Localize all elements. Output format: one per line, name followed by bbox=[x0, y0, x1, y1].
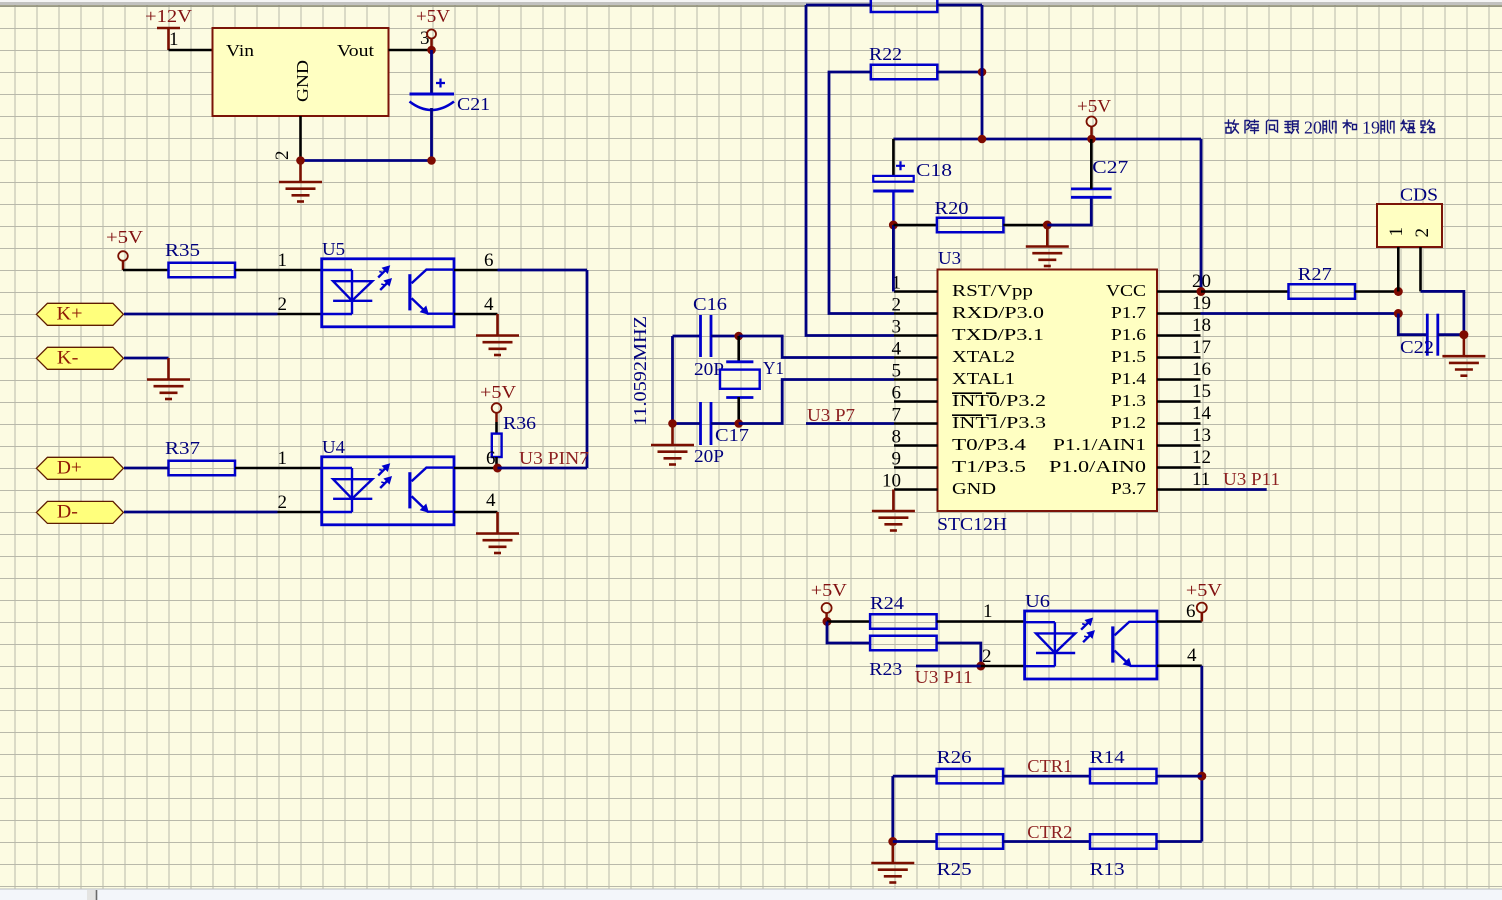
junction VCC pin20 bbox=[1197, 287, 1206, 296]
wire pin6 node to riser bbox=[498, 467, 588, 470]
junction U6 pin2 node bbox=[976, 662, 985, 671]
svg-text:XTAL1: XTAL1 bbox=[952, 369, 1015, 388]
wire D+ to R37 bbox=[124, 467, 169, 470]
pin 4 wire U6 bbox=[1157, 664, 1202, 667]
wire K+ to U5 pin2 bbox=[124, 313, 278, 316]
port K- bbox=[36, 347, 123, 369]
svg-text:C22: C22 bbox=[1400, 337, 1434, 357]
svg-text:11.0592MHZ: 11.0592MHZ bbox=[630, 316, 650, 426]
pin names right U3 bbox=[1049, 281, 1147, 498]
svg-text:C18: C18 bbox=[916, 160, 952, 180]
wire node down to RST pin1 bbox=[892, 225, 895, 292]
svg-text:19: 19 bbox=[1362, 118, 1380, 138]
svg-text:P1.6: P1.6 bbox=[1111, 325, 1146, 344]
resistor R22 bbox=[871, 65, 938, 80]
junction R22 right bbox=[978, 68, 987, 77]
svg-text:6: 6 bbox=[892, 383, 902, 404]
pin 2 wire GND down bbox=[299, 116, 302, 161]
junction riser on rail bbox=[978, 135, 987, 144]
wire R24 to U6 pin1 bbox=[937, 620, 1025, 623]
wire R23 to pin2 node bbox=[937, 643, 981, 666]
svg-text:T1/P3.5: T1/P3.5 bbox=[952, 457, 1026, 476]
svg-text:1: 1 bbox=[1386, 227, 1407, 237]
svg-text:P1.4: P1.4 bbox=[1111, 369, 1147, 388]
svg-text:CTR2: CTR2 bbox=[1027, 822, 1072, 842]
svg-text:4: 4 bbox=[484, 294, 494, 315]
wire R27 to CDS node bbox=[1355, 290, 1398, 293]
pin 4 wire U4 bbox=[454, 511, 498, 514]
wire rail down to C18 bbox=[892, 139, 895, 176]
ground at K- bbox=[147, 358, 190, 399]
resistor R24 bbox=[870, 614, 937, 629]
ground at CDS bbox=[1442, 335, 1485, 376]
wire bottom rail bbox=[301, 159, 432, 162]
resistor R14 bbox=[1090, 769, 1157, 784]
svg-text:4: 4 bbox=[1187, 645, 1197, 666]
wire top rail left bbox=[806, 4, 871, 7]
junction +5V bottom bbox=[823, 617, 832, 626]
wire R13 to riser bbox=[1157, 840, 1202, 843]
wire R37 to U4 pin1 bbox=[235, 467, 322, 470]
resistor R13 bbox=[1090, 834, 1157, 849]
wire pin19 node to C22 bbox=[1398, 314, 1426, 335]
wire U6 pin4 riser down bbox=[1200, 666, 1203, 842]
capacitor C27 bbox=[1071, 189, 1112, 197]
junction R20 right bbox=[1043, 221, 1052, 230]
connector CDS bbox=[1377, 185, 1442, 248]
svg-text:D+: D+ bbox=[57, 457, 82, 478]
wire R26 to R14 bbox=[1003, 775, 1090, 778]
crystal Y1 bbox=[720, 336, 760, 424]
svg-text:K+: K+ bbox=[57, 303, 83, 324]
resistor R23 bbox=[870, 636, 937, 651]
wire ground node to R25 bbox=[893, 840, 937, 843]
wire ground node to C27 bbox=[1047, 199, 1091, 226]
pin 1 wire CDS bbox=[1397, 247, 1400, 292]
port K+ bbox=[36, 303, 123, 325]
svg-text:2: 2 bbox=[272, 151, 293, 161]
svg-text:4: 4 bbox=[892, 339, 902, 360]
annotation text chinese bbox=[1225, 118, 1435, 138]
svg-text:R26: R26 bbox=[937, 747, 972, 767]
wire +12V to Vin bbox=[169, 49, 213, 52]
svg-text:P1.3: P1.3 bbox=[1111, 391, 1146, 410]
wire R22 left to RXD pin2 bbox=[829, 72, 894, 314]
svg-text:P1.7: P1.7 bbox=[1111, 303, 1147, 322]
wire R14 to riser bbox=[1157, 775, 1202, 778]
svg-text:P1.5: P1.5 bbox=[1111, 347, 1146, 366]
pin 4 wire U5 bbox=[454, 313, 498, 316]
wire P1.7 pin19 bbox=[1157, 312, 1201, 315]
wire C18 to R20 node bbox=[892, 191, 894, 225]
wire to C16 bbox=[673, 335, 701, 338]
svg-text:GND: GND bbox=[952, 479, 996, 498]
svg-text:T0/P3.4: T0/P3.4 bbox=[952, 435, 1027, 454]
wire C16 to crystal node bbox=[711, 335, 739, 338]
svg-text:R13: R13 bbox=[1090, 859, 1125, 879]
wire R25 to R13 bbox=[1003, 840, 1090, 843]
svg-text:2: 2 bbox=[982, 646, 992, 667]
wire +5V to R24 bbox=[827, 620, 870, 623]
overline INT0 bbox=[952, 392, 997, 394]
svg-text:XTAL2: XTAL2 bbox=[952, 347, 1015, 366]
ground below regulator bbox=[279, 161, 322, 202]
ground bottom left bbox=[871, 842, 914, 883]
capacitor C17 bbox=[701, 402, 712, 445]
capacitor C22 bbox=[1427, 314, 1438, 356]
wire C22 to ground node bbox=[1438, 333, 1464, 336]
svg-text:20P: 20P bbox=[694, 446, 724, 466]
svg-text:1: 1 bbox=[983, 601, 993, 622]
pin names left U3 bbox=[952, 281, 1046, 498]
wire U5 pin6 to right riser bbox=[498, 269, 588, 272]
svg-text:R37: R37 bbox=[165, 438, 200, 458]
svg-text:14: 14 bbox=[1192, 403, 1212, 424]
junction ground node right bbox=[1459, 330, 1468, 339]
svg-text:VCC: VCC bbox=[1106, 281, 1146, 300]
wire left riser of crystal bbox=[671, 336, 674, 424]
wire top rail right bbox=[937, 4, 982, 7]
svg-text:13: 13 bbox=[1192, 425, 1211, 446]
resistor R35 bbox=[169, 263, 236, 278]
wire stub U3 P7 bbox=[806, 422, 894, 425]
wire stub U3 P11 bottom bbox=[916, 665, 981, 668]
power +5V for R35 bbox=[106, 227, 143, 270]
svg-text:CDS: CDS bbox=[1400, 185, 1438, 205]
junction bottom crystal node bbox=[734, 419, 743, 428]
svg-text:R20: R20 bbox=[935, 198, 969, 218]
wire R36 to pin6 node bbox=[495, 457, 498, 468]
svg-text:K-: K- bbox=[57, 347, 79, 368]
svg-text:+5V: +5V bbox=[1186, 580, 1222, 600]
wire R20 to ground node bbox=[1003, 224, 1047, 227]
wire +5V to R36 bbox=[495, 422, 498, 434]
svg-text:R24: R24 bbox=[870, 593, 904, 613]
svg-text:R23: R23 bbox=[869, 659, 902, 679]
svg-text:+12V: +12V bbox=[145, 6, 192, 26]
svg-text:2: 2 bbox=[278, 492, 288, 513]
port D- bbox=[36, 501, 123, 523]
svg-text:R27: R27 bbox=[1298, 264, 1332, 284]
svg-text:U5: U5 bbox=[322, 239, 345, 259]
svg-text:RST/Vpp: RST/Vpp bbox=[952, 281, 1033, 300]
power +5V at Vout bbox=[416, 6, 450, 50]
wire riser down to U3 PIN7 net bbox=[586, 270, 589, 468]
svg-text:U3 P7: U3 P7 bbox=[807, 405, 855, 425]
svg-text:P1.0/AIN0: P1.0/AIN0 bbox=[1049, 457, 1146, 476]
svg-text:19: 19 bbox=[1192, 293, 1211, 314]
svg-text:2: 2 bbox=[1412, 228, 1433, 238]
svg-text:R14: R14 bbox=[1090, 747, 1125, 767]
junction CTR1 right bbox=[1197, 772, 1206, 781]
pin 2 wire CDS bbox=[1419, 247, 1422, 291]
svg-text:R36: R36 bbox=[503, 413, 536, 433]
resistor R37 bbox=[169, 461, 236, 476]
power +12V bbox=[145, 6, 192, 50]
ground at crystal bbox=[651, 424, 694, 465]
svg-text:U3 P11: U3 P11 bbox=[1223, 469, 1280, 489]
svg-text:C16: C16 bbox=[693, 294, 727, 314]
svg-text:U6: U6 bbox=[1025, 591, 1050, 611]
svg-text:17: 17 bbox=[1192, 337, 1211, 358]
wire node to U6 pin2 bbox=[981, 665, 1025, 668]
svg-text:4: 4 bbox=[486, 490, 496, 511]
wire C27 to +5V rail bbox=[1090, 139, 1093, 189]
optocoupler U6 bbox=[1025, 611, 1157, 679]
pin 6 wire U4 bbox=[454, 467, 498, 470]
optocoupler U4 bbox=[322, 457, 454, 525]
svg-text:Vin: Vin bbox=[226, 41, 255, 60]
wire +5V rail bbox=[893, 138, 1201, 141]
resistor R27 bbox=[1289, 284, 1356, 299]
optocoupler U5 bbox=[322, 259, 454, 327]
svg-text:Y1: Y1 bbox=[763, 358, 784, 378]
svg-text:6: 6 bbox=[484, 250, 494, 271]
svg-text:+5V: +5V bbox=[1077, 96, 1111, 116]
wire riser R21 R22 to +5V rail bbox=[981, 5, 984, 139]
wire rail to VCC riser bbox=[1200, 139, 1203, 292]
svg-text:U3: U3 bbox=[938, 248, 961, 268]
svg-text:+5V: +5V bbox=[106, 227, 143, 247]
pin lines left U3 bbox=[894, 292, 938, 490]
svg-text:U4: U4 bbox=[322, 437, 345, 457]
power +5V top bbox=[1077, 96, 1111, 139]
svg-text:Vout: Vout bbox=[337, 41, 374, 60]
overline INT1 bbox=[952, 414, 997, 416]
svg-text:11: 11 bbox=[1192, 469, 1210, 490]
junction at Vout node bbox=[427, 46, 436, 55]
svg-text:C17: C17 bbox=[715, 425, 749, 445]
svg-text:GND: GND bbox=[293, 60, 312, 102]
resistor R20 bbox=[937, 218, 1004, 233]
junction CDS pin1 node bbox=[1394, 287, 1403, 296]
svg-text:+5V: +5V bbox=[480, 382, 516, 402]
resistor R36 vertical bbox=[492, 434, 502, 457]
port D+ bbox=[36, 457, 123, 479]
wire K- to ground bbox=[124, 357, 169, 360]
wire bottom crystal rail bbox=[673, 422, 701, 425]
junction left riser bottom bbox=[668, 419, 677, 428]
pin 6 wire U5 bbox=[454, 269, 498, 272]
wire node to XTAL1 corner bbox=[739, 380, 894, 424]
wire stub U3 P11 net bbox=[1201, 488, 1267, 491]
wire +5V down to R23 bbox=[827, 622, 870, 644]
svg-text:20: 20 bbox=[1304, 118, 1322, 138]
wire riser to TXD pin3 bbox=[806, 5, 894, 336]
svg-text:2: 2 bbox=[278, 294, 288, 315]
power +5V bottom right bbox=[1186, 580, 1222, 622]
voltage regulator VR1 bbox=[213, 28, 389, 116]
svg-text:R22: R22 bbox=[869, 44, 902, 64]
wire R22 right to riser bbox=[937, 71, 982, 74]
power +5V for R36 bbox=[480, 382, 516, 422]
junction at GND pin bbox=[296, 156, 305, 165]
power +5V bottom left bbox=[811, 580, 847, 622]
junction at R36 and U4 pin6 bbox=[493, 464, 502, 473]
ground at U5 pin4 bbox=[476, 314, 519, 355]
svg-text:1: 1 bbox=[278, 250, 288, 271]
svg-text:12: 12 bbox=[1192, 447, 1211, 468]
wire +5V node down to C21 bbox=[430, 50, 433, 94]
capacitor C18 polarized bbox=[873, 160, 952, 191]
svg-text:P3.7: P3.7 bbox=[1111, 479, 1147, 498]
junction top crystal node bbox=[734, 332, 743, 341]
resistor R21 top clipped bbox=[871, 0, 938, 12]
ground at U4 pin4 bbox=[476, 512, 519, 553]
svg-text:8: 8 bbox=[892, 427, 902, 448]
svg-text:CTR1: CTR1 bbox=[1027, 756, 1072, 776]
ground at U3 pin10 bbox=[872, 490, 915, 531]
pin numbers right U3 bbox=[1192, 271, 1212, 490]
pin lines right U3 bbox=[1157, 292, 1201, 490]
svg-text:D-: D- bbox=[57, 501, 78, 522]
svg-text:C27: C27 bbox=[1092, 157, 1128, 177]
capacitor C16 bbox=[701, 315, 712, 357]
svg-text:P1.2: P1.2 bbox=[1111, 413, 1146, 432]
wire C21 to bottom rail bbox=[430, 108, 433, 161]
svg-text:6: 6 bbox=[1186, 601, 1196, 622]
wire node to R20 bbox=[893, 224, 937, 227]
ground mid top bbox=[1026, 225, 1069, 266]
svg-text:U3 P11: U3 P11 bbox=[915, 667, 973, 687]
svg-text:10: 10 bbox=[882, 471, 901, 492]
svg-text:U3 PIN7: U3 PIN7 bbox=[519, 448, 589, 468]
wire CTR1 left riser bbox=[891, 776, 894, 841]
svg-text:15: 15 bbox=[1192, 381, 1211, 402]
svg-text:R25: R25 bbox=[937, 859, 972, 879]
junction pin19 wire C22 bbox=[1394, 309, 1403, 318]
svg-text:+5V: +5V bbox=[811, 580, 847, 600]
pin 6 wire U6 bbox=[1157, 620, 1202, 623]
resistor R25 bbox=[937, 834, 1004, 849]
svg-text:18: 18 bbox=[1192, 315, 1211, 336]
svg-text:16: 16 bbox=[1192, 359, 1211, 380]
svg-text:STC12H: STC12H bbox=[937, 514, 1007, 534]
wire pin20 to R27 bbox=[1201, 290, 1289, 293]
wire riser to R26 bbox=[893, 775, 937, 778]
svg-text:1: 1 bbox=[278, 448, 288, 469]
svg-text:5: 5 bbox=[892, 361, 902, 382]
svg-text:C21: C21 bbox=[457, 94, 490, 114]
microcontroller U3 body bbox=[938, 270, 1158, 512]
svg-text:R35: R35 bbox=[165, 240, 200, 260]
svg-text:1: 1 bbox=[169, 29, 179, 50]
junction C18 bottom bbox=[889, 221, 898, 230]
junction +5V on rail bbox=[1087, 135, 1096, 144]
pin numbers left U3 bbox=[882, 273, 902, 492]
svg-text:9: 9 bbox=[892, 449, 902, 470]
pin 3 wire Vout to +5V node bbox=[389, 49, 432, 52]
wire node to XTAL2 corner bbox=[739, 336, 894, 358]
svg-text:P1.1/AIN1: P1.1/AIN1 bbox=[1053, 435, 1146, 454]
svg-text:TXD/P3.1: TXD/P3.1 bbox=[952, 325, 1044, 344]
svg-text:7: 7 bbox=[892, 405, 902, 426]
svg-text:RXD/P3.0: RXD/P3.0 bbox=[952, 303, 1044, 322]
wire D- to U4 pin2 bbox=[124, 511, 278, 514]
resistor R26 bbox=[937, 769, 1004, 784]
svg-text:+5V: +5V bbox=[416, 6, 450, 26]
junction CTR2 left bbox=[888, 837, 897, 846]
junction at C21 bottom bbox=[427, 156, 436, 165]
wire R35 to U5 pin1 bbox=[235, 269, 322, 272]
wire CDS pin2 to ground riser bbox=[1421, 291, 1464, 334]
capacitor C21 bbox=[410, 79, 491, 115]
wire +5V to R35 bbox=[123, 269, 169, 272]
